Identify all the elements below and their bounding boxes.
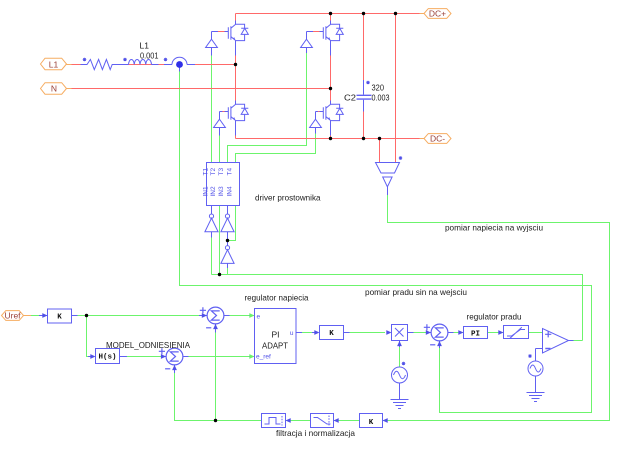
svg-text:IN3: IN3 [218, 186, 225, 197]
svg-text:pomiar pradu sin na wejsciu: pomiar pradu sin na wejsciu [365, 287, 467, 297]
svg-text:C2: C2 [344, 93, 356, 103]
svg-text:IN4: IN4 [226, 186, 233, 197]
svg-text:K: K [369, 419, 374, 427]
svg-text:e_ref: e_ref [256, 354, 271, 361]
svg-text:T4: T4 [226, 168, 233, 176]
svg-text:Uref: Uref [4, 310, 21, 320]
svg-text:pomiar napiecia na wyjsciu: pomiar napiecia na wyjsciu [445, 223, 543, 233]
svg-text:0.001: 0.001 [140, 50, 159, 60]
svg-text:filtracja i normalizacja: filtracja i normalizacja [276, 428, 355, 438]
svg-text:PI: PI [271, 330, 279, 340]
svg-text:L1: L1 [140, 41, 150, 51]
svg-text:T2: T2 [210, 168, 217, 176]
svg-text:T3: T3 [218, 168, 225, 176]
svg-text:T1: T1 [202, 168, 209, 176]
svg-text:IN2: IN2 [210, 186, 217, 197]
svg-text:DC-: DC- [430, 133, 445, 143]
svg-text:320: 320 [372, 83, 385, 93]
svg-text:0.003: 0.003 [372, 93, 390, 103]
svg-text:ADAPT: ADAPT [262, 340, 288, 350]
svg-text:MODEL_ODNIESIENIA: MODEL_ODNIESIENIA [106, 340, 190, 350]
svg-text:L1: L1 [49, 59, 59, 69]
svg-text:IN1: IN1 [202, 186, 209, 197]
svg-text:regulator napiecia: regulator napiecia [245, 293, 309, 303]
svg-text:PI: PI [471, 331, 480, 339]
svg-text:e: e [257, 314, 261, 321]
svg-text:DC+: DC+ [429, 8, 446, 18]
svg-text:H(s): H(s) [98, 354, 116, 362]
svg-text:N: N [51, 84, 57, 94]
svg-text:u: u [290, 330, 294, 337]
svg-text:regulator pradu: regulator pradu [467, 312, 522, 322]
svg-text:K: K [57, 314, 62, 322]
svg-text:driver prostownika: driver prostownika [255, 193, 321, 203]
svg-text:K: K [329, 330, 334, 338]
